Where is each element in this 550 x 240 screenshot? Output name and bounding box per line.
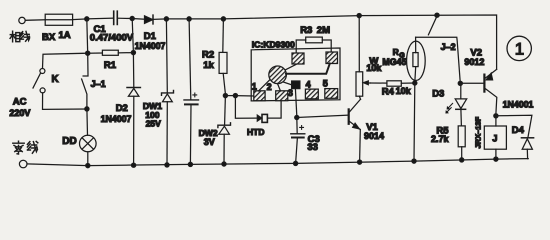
node H junction	[86, 51, 90, 55]
svg-text:2M: 2M	[317, 25, 330, 36]
svg-text:J–2: J–2	[441, 42, 456, 52]
svg-text:IC:KD9300: IC:KD9300	[252, 39, 295, 49]
LED D3 emission arrows	[446, 103, 452, 112]
wire node A down to node H	[86, 19, 89, 53]
svg-text:9014: 9014	[364, 131, 384, 141]
wire W bottom to V1 collector	[359, 96, 360, 99]
transistor V2 emitter with arrow (PNP)	[485, 69, 496, 78]
RG leads	[414, 37, 417, 81]
IC pad A top-left	[292, 53, 304, 64]
label 零线 (neutral wire)	[13, 141, 38, 154]
IC pad pin5	[325, 89, 338, 99]
wire node B down through R1 node to D2	[132, 19, 134, 88]
fuse BX 1A	[45, 14, 72, 25]
wire node D to node E	[189, 18, 223, 20]
piezo sounder HTD	[257, 115, 261, 121]
transistor V1 emitter with arrow	[350, 122, 361, 130]
potentiometer W wiper arrow	[366, 82, 370, 84]
bond wire die to pad 2	[277, 83, 280, 91]
svg-text:220V: 220V	[9, 108, 30, 118]
svg-text:HTD: HTD	[247, 127, 264, 137]
node N junction V2 base / D3	[458, 81, 462, 85]
svg-text:1k: 1k	[203, 60, 214, 71]
wire node P to D4	[496, 115, 532, 137]
wire DW1 to bottom rail	[166, 102, 168, 165]
svg-text:D2: D2	[116, 103, 128, 114]
diode D2 1N4007	[127, 87, 140, 89]
IC pad pin1	[254, 91, 265, 101]
switch K	[40, 69, 45, 74]
transistor V2 9012 base bar	[483, 75, 485, 92]
wire top rail: terminal to fuse	[25, 19, 45, 22]
IC pad pin2	[276, 91, 288, 101]
svg-text:R3: R3	[300, 25, 312, 36]
wire D4 to bottom rail	[526, 149, 528, 158]
svg-text:JRX–13F: JRX–13F	[474, 116, 483, 148]
photoresistor RG element	[413, 53, 418, 67]
resistor R3 2M	[306, 37, 323, 43]
relay contact J-2 blade	[428, 17, 436, 35]
node F junction	[357, 14, 361, 18]
svg-text:4: 4	[306, 79, 311, 89]
IC pad pin3 black square	[292, 81, 300, 89]
wire node K2 down and right to HTD	[235, 96, 257, 119]
wire node K1 down to DW2	[224, 96, 227, 125]
zener DW1	[162, 91, 174, 96]
svg-text:DD: DD	[62, 136, 76, 147]
svg-text:1A: 1A	[59, 30, 71, 41]
svg-text:1N4007: 1N4007	[135, 41, 166, 51]
svg-text:D3: D3	[432, 89, 444, 100]
wire K bottom to node J (lamp node)	[43, 93, 87, 110]
figure number circle 1	[507, 36, 531, 60]
wire node K2 to IC pad 1	[235, 95, 253, 97]
node B junction	[130, 16, 134, 20]
bottom rail junction dot R5	[460, 158, 464, 162]
svg-text:1N4007: 1N4007	[101, 114, 132, 124]
bottom rail junction dot C3	[294, 161, 298, 165]
wire wiper to R4	[370, 82, 387, 84]
bottom rail junction dot D2	[132, 163, 136, 167]
node M junction R4/RG	[413, 81, 417, 85]
svg-text:BX: BX	[42, 32, 56, 43]
wire fuse to node A	[73, 18, 87, 21]
wire node F to node G	[359, 14, 437, 16]
node D junction	[187, 17, 191, 21]
LED D3	[460, 83, 462, 99]
node K1 junction	[223, 94, 227, 98]
node P junction V2 collector / relay / D4	[494, 114, 498, 118]
IC die blob	[269, 66, 287, 84]
wire node D down to capacitor C2	[189, 19, 191, 100]
svg-text:MG45: MG45	[382, 57, 406, 67]
lamp DD	[80, 135, 97, 152]
wire node J to lamp DD	[86, 109, 89, 135]
svg-text:5: 5	[323, 78, 328, 88]
svg-text:R1: R1	[104, 60, 117, 71]
svg-text:10k: 10k	[366, 63, 382, 73]
svg-text:1N4001: 1N4001	[503, 100, 534, 110]
svg-text:2: 2	[267, 82, 272, 92]
wire relay to bottom rail	[495, 149, 497, 159]
svg-text:1: 1	[515, 40, 524, 59]
bottom rail junction dot DW2	[222, 162, 226, 166]
potentiometer W 10k	[356, 72, 363, 96]
svg-text:25V: 25V	[146, 119, 162, 129]
svg-text:1: 1	[252, 81, 257, 91]
bottom rail junction dot relay	[494, 157, 498, 161]
wire lamp DD to bottom rail	[87, 152, 89, 166]
node G junction	[435, 13, 439, 17]
wire node M down to bottom rail	[413, 83, 416, 161]
wire R5 to bottom rail	[461, 147, 463, 160]
wire pin3 square down to node L	[295, 89, 296, 116]
svg-text:J–1: J–1	[91, 79, 106, 89]
wire node G to top-right corner, down to V2 emitter	[437, 15, 497, 69]
svg-text:2.7k: 2.7k	[431, 134, 450, 144]
terminal phase-line input	[19, 17, 25, 23]
node J junction	[85, 107, 89, 111]
svg-text:3V: 3V	[204, 137, 215, 147]
wire node F down to potentiometer W	[358, 16, 360, 72]
wire node L down to C3	[296, 118, 298, 134]
bond wire pad A to die	[286, 65, 297, 70]
bond wire die to pin 3 square	[283, 82, 291, 85]
node A junction	[85, 17, 89, 21]
bottom rail junction dot V1 emitter	[358, 160, 362, 164]
svg-text:0.47/400V: 0.47/400V	[90, 32, 134, 43]
relay contact J-2 fixed bar	[416, 37, 461, 83]
terminal neutral-line input	[19, 160, 27, 168]
wire C1 to node B	[118, 17, 133, 19]
svg-text:9012: 9012	[464, 57, 484, 67]
bottom rail junction dot lamp	[86, 164, 90, 168]
svg-text:3: 3	[288, 88, 293, 98]
wire DW2 to bottom rail	[223, 134, 225, 164]
wire node E down to R2	[222, 19, 225, 53]
bottom rail junction dot C2	[188, 162, 192, 166]
IC pad B top-right	[326, 52, 338, 64]
bottom rail junction dot node M line	[412, 159, 416, 163]
wire D1 to node C	[153, 18, 166, 21]
capacitor C1 0.47/400V	[114, 11, 118, 24]
svg-text:J: J	[492, 134, 497, 144]
wire node K1 to node K2	[225, 95, 235, 97]
transistor V2 collector	[485, 89, 497, 114]
wire C3 to bottom rail	[296, 138, 298, 164]
svg-text:R2: R2	[202, 50, 214, 61]
svg-text:33: 33	[307, 142, 318, 153]
resistor R5 2.7k	[458, 126, 465, 147]
wire node E to node F (top rail over IC)	[223, 16, 359, 19]
label 相线 (phase wire)	[10, 31, 30, 42]
op-amp U1 outline IC:KD9300 COB module	[251, 48, 340, 101]
bond wire die to pad B thick trace	[286, 64, 330, 74]
node C junction	[164, 17, 168, 21]
bond wire die to pad 1	[259, 80, 270, 91]
wire node L to V1 base	[297, 115, 348, 117]
relay coil J (JRX-13F)	[495, 116, 497, 126]
diode D1 1N4007	[145, 16, 153, 24]
wire node H left to switch K branch	[43, 53, 88, 68]
svg-text:AC: AC	[13, 97, 27, 108]
resistor R2 1k	[219, 52, 227, 73]
capacitor C3 33 electrolytic	[291, 133, 305, 135]
svg-text:R4: R4	[382, 87, 395, 98]
wire node C to node D	[166, 18, 189, 20]
wire R2 to node K1	[223, 73, 225, 93]
diode D4 1N4001	[521, 137, 533, 139]
IC pad pin4	[305, 89, 318, 99]
capacitor C2 electrolytic	[184, 99, 199, 101]
svg-text:D4: D4	[512, 125, 525, 136]
bottom rail junction dot DW1	[165, 163, 169, 167]
wire node A to C1	[87, 17, 114, 20]
photoresistor RG MG45 envelope	[407, 41, 426, 80]
wire C2 to bottom rail	[189, 104, 192, 164]
svg-text:10k: 10k	[396, 86, 412, 96]
bottom rail neutral wire	[27, 159, 528, 166]
svg-text:K: K	[52, 74, 59, 85]
wire HTD to IC pad 2	[268, 101, 281, 119]
wire node N to V2 base	[460, 82, 483, 84]
wire node C down to DW1	[165, 19, 168, 92]
node R1-right junction	[131, 51, 135, 55]
wire D2 to bottom rail	[133, 96, 135, 165]
node K2 junction	[233, 94, 237, 98]
wire node B to D1	[132, 18, 144, 21]
relay contact J-1	[82, 53, 88, 107]
transistor V1 collector	[350, 99, 361, 112]
zener DW2 3V	[218, 123, 231, 128]
wire D3 to R5	[460, 110, 463, 126]
node L junction	[295, 115, 299, 119]
transistor V1 9014 base bar	[348, 109, 350, 123]
resistor R1	[102, 50, 118, 55]
resistor R4 10k	[387, 81, 401, 86]
wire V1 emitter to bottom rail	[359, 130, 362, 162]
node E junction	[221, 17, 225, 21]
